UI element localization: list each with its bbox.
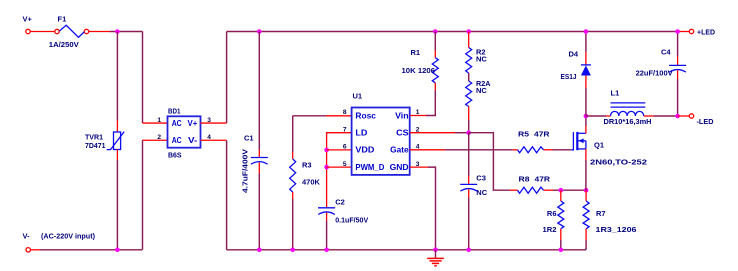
svg-text:6: 6 <box>343 144 347 151</box>
svg-text:470K: 470K <box>302 177 321 186</box>
svg-text:R1: R1 <box>411 48 421 57</box>
node junction C3 bottom <box>466 248 471 253</box>
svg-text:+LED: +LED <box>697 28 716 37</box>
svg-text:V-: V- <box>188 136 198 145</box>
node junction TVR1 / V- rail <box>115 248 120 253</box>
wire U1 pin 4 Gate to R5 <box>410 149 513 151</box>
svg-text:1A/250V: 1A/250V <box>49 40 79 49</box>
svg-text:AC: AC <box>172 136 182 145</box>
svg-text:V-: V- <box>23 232 31 241</box>
node junction pin6 <box>324 148 329 153</box>
node -LED terminal <box>689 114 714 126</box>
node junction R6 bottom <box>559 248 564 253</box>
svg-text:DR10*16,3mH: DR10*16,3mH <box>604 117 652 126</box>
wire pin 6 stub <box>327 149 352 151</box>
wire TVR1 bottom <box>116 150 118 250</box>
resistor R7 <box>583 190 589 250</box>
svg-text:ES1J: ES1J <box>561 72 577 81</box>
capacitor C4 <box>669 32 686 117</box>
svg-text:7: 7 <box>343 126 347 133</box>
resistor R8 <box>510 187 586 193</box>
svg-text:CS: CS <box>396 129 409 138</box>
bridge rectifier BD1 <box>168 116 201 147</box>
fuse F1 <box>55 25 89 37</box>
wire pin 5 stub <box>327 166 352 168</box>
svg-text:4.7uF/400V: 4.7uF/400V <box>241 149 250 193</box>
svg-text:GND: GND <box>390 163 409 172</box>
resistor R6 <box>558 190 564 250</box>
node V- terminal <box>23 232 31 252</box>
wire BD1 pin 4 to bottom rail <box>201 140 227 250</box>
node junction drain/L1 <box>584 114 589 119</box>
svg-text:V+: V+ <box>23 15 33 24</box>
wire top DC rail <box>227 31 690 33</box>
wire down to BD1 pin 1 <box>143 32 168 124</box>
wire bottom DC rail <box>227 249 586 251</box>
svg-text:L1: L1 <box>611 89 620 98</box>
wire U1 pin 2 CS <box>410 132 469 134</box>
svg-text:Q1: Q1 <box>594 140 604 149</box>
svg-text:C1: C1 <box>244 134 254 143</box>
svg-text:PWM_D: PWM_D <box>355 163 384 172</box>
node junction R6 top <box>559 188 564 193</box>
svg-text:F1: F1 <box>58 15 67 24</box>
varistor TVR1 <box>107 132 125 150</box>
svg-text:LD: LD <box>355 129 367 138</box>
svg-text:BD1: BD1 <box>168 106 181 115</box>
svg-text:5: 5 <box>343 161 347 168</box>
wire TVR1 branch top <box>116 32 118 133</box>
node junction C1 top <box>257 29 262 34</box>
wire Q1 source down <box>585 149 587 190</box>
node junction C2 bottom <box>324 248 329 253</box>
resistor R3 <box>290 116 296 250</box>
svg-text:(AC-220V input): (AC-220V input) <box>41 232 95 241</box>
svg-text:B6S: B6S <box>168 151 182 160</box>
wire BD1 pin 3 to top rail <box>201 32 227 124</box>
capacitor C1 <box>251 32 268 250</box>
wire V- rail to BD1 pin 2 <box>31 140 168 250</box>
wire Q1 drain up <box>585 116 587 133</box>
wire F1 to junction <box>89 31 143 33</box>
node junction D4 top <box>584 29 589 34</box>
node junction R2 top <box>466 29 471 34</box>
svg-text:NC: NC <box>476 86 487 95</box>
svg-text:R3: R3 <box>302 161 312 170</box>
svg-text:R6: R6 <box>547 209 557 218</box>
svg-text:2N60,TO-252: 2N60,TO-252 <box>590 158 647 167</box>
svg-text:C4: C4 <box>661 48 671 57</box>
resistor R2A <box>466 81 472 133</box>
svg-text:Rosc: Rosc <box>355 111 376 120</box>
transistor Q1 <box>571 132 586 150</box>
ground <box>427 250 444 266</box>
wire U1 pin 3 GND <box>410 167 436 250</box>
node +LED terminal <box>689 28 715 37</box>
node junction F1/TVR1 <box>115 29 120 34</box>
svg-text:V+: V+ <box>188 119 198 128</box>
svg-text:NC: NC <box>476 188 487 197</box>
node junction C4 bottom <box>675 114 680 119</box>
capacitor C2 <box>318 208 335 250</box>
wire V+ to F1 <box>30 31 54 33</box>
svg-text:C2: C2 <box>335 197 345 206</box>
node junction R7 top <box>584 188 589 193</box>
svg-text:7D471: 7D471 <box>85 141 106 150</box>
node junction R1 top <box>433 29 438 34</box>
svg-text:1R3_1206: 1R3_1206 <box>596 225 637 234</box>
resistor R5 <box>513 147 572 153</box>
svg-text:VDD: VDD <box>355 146 374 155</box>
svg-text:8: 8 <box>343 109 347 116</box>
op-amp U1 <box>352 108 410 175</box>
svg-text:47R: 47R <box>535 175 551 184</box>
svg-text:1R2: 1R2 <box>543 225 557 234</box>
node junction C1 bottom <box>257 248 262 253</box>
node junction GND rail <box>433 248 438 253</box>
svg-text:22uF/100V: 22uF/100V <box>636 68 673 77</box>
wire U1 left pins vertical <box>327 133 352 208</box>
wire R2 to R2A <box>468 73 470 81</box>
svg-text:R8: R8 <box>519 175 530 184</box>
inductor L1 <box>586 103 678 116</box>
resistor R1 <box>410 32 439 116</box>
node V+ terminal <box>23 15 33 34</box>
node junction R3 bottom <box>290 248 295 253</box>
wire CS to R8 <box>469 133 510 191</box>
node junction C4 top <box>675 29 680 34</box>
wire to -LED <box>678 115 690 117</box>
svg-text:-LED: -LED <box>697 117 715 126</box>
node junction pin5 <box>324 165 329 170</box>
svg-text:Gate: Gate <box>390 146 409 155</box>
svg-text:R5: R5 <box>518 130 529 139</box>
svg-text:1: 1 <box>157 117 161 124</box>
svg-text:R7: R7 <box>596 209 606 218</box>
svg-text:AC: AC <box>172 119 182 128</box>
wire R3 top to U1 pin 8 <box>293 115 352 117</box>
svg-text:10K 1206: 10K 1206 <box>402 66 436 75</box>
node junction CS <box>466 130 471 135</box>
svg-text:NC: NC <box>476 55 487 64</box>
svg-text:2: 2 <box>157 134 161 141</box>
svg-text:C3: C3 <box>476 173 486 182</box>
resistor R2 <box>466 32 472 74</box>
capacitor C3 <box>460 133 477 250</box>
svg-text:47R: 47R <box>534 130 550 139</box>
svg-text:Vin: Vin <box>395 111 409 120</box>
diode D4 <box>581 32 591 117</box>
svg-text:D4: D4 <box>569 49 579 58</box>
svg-text:U1: U1 <box>353 91 363 100</box>
svg-text:0.1uF/50V: 0.1uF/50V <box>335 215 368 224</box>
